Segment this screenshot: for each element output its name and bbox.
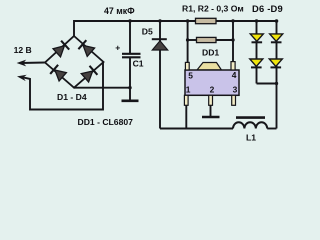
diode D2 (top-right) — [78, 40, 94, 56]
junction top rail / LED column A — [255, 19, 258, 22]
svg-text:L1: L1 — [246, 132, 256, 142]
wire LED column A — [256, 21, 258, 84]
wire LED join bar — [257, 83, 277, 85]
inductor L1 coil — [233, 122, 267, 128]
IC pin 1 — [184, 95, 188, 105]
junction R2 right — [231, 38, 234, 41]
diode D4 (bottom-right) — [81, 66, 97, 82]
svg-text:5: 5 — [188, 71, 193, 81]
svg-text:D1 - D4: D1 - D4 — [57, 92, 87, 102]
wire SW bottom rail — [160, 128, 233, 130]
IC DD1 tab — [197, 63, 222, 71]
wire top rail — [74, 21, 277, 36]
svg-text:D6 -D9: D6 -D9 — [252, 3, 283, 14]
IC pin 4 — [231, 62, 235, 70]
svg-text:1: 1 — [186, 85, 191, 95]
svg-text:D5: D5 — [142, 27, 153, 37]
junction top rail / LED column B — [275, 19, 279, 23]
junction D5 top — [158, 19, 161, 22]
IC DD1 body — [185, 70, 239, 95]
resistor R2 wires — [187, 21, 189, 62]
LED D7 — [270, 34, 283, 42]
svg-text:2: 2 — [210, 85, 215, 95]
svg-text:DD1 - CL6807: DD1 - CL6807 — [78, 117, 134, 127]
svg-text:C1: C1 — [133, 59, 144, 69]
arrow input terminal 2 — [17, 75, 27, 81]
arrow input terminal 1 — [17, 60, 27, 67]
junction R node right top — [231, 19, 234, 22]
svg-text:3: 3 — [233, 85, 238, 95]
wire L1 to LED column — [267, 128, 276, 130]
svg-text:+: + — [115, 42, 120, 52]
LED D8 — [250, 59, 263, 67]
wire AC input top — [21, 62, 45, 65]
capacitor C1 wires — [129, 21, 131, 53]
svg-text:12 В: 12 В — [14, 45, 32, 55]
IC pin 2 — [209, 95, 213, 105]
wire pin1 to SW rail — [185, 105, 187, 129]
LED D6 — [250, 34, 263, 42]
wire AC input bottom loop to bridge right vertex — [23, 62, 103, 110]
svg-text:4: 4 — [232, 70, 237, 80]
diode D1 (top-left) — [53, 41, 69, 57]
diode D5 wire — [159, 21, 161, 129]
svg-text:R1, R2 - 0,3 Ом: R1, R2 - 0,3 Ом — [182, 3, 244, 13]
svg-text:47 мкФ: 47 мкФ — [104, 6, 135, 16]
junction LED join / column B — [275, 82, 278, 85]
capacitor C1 plates — [122, 53, 141, 55]
diode D3 (bottom-left) — [50, 65, 66, 81]
inductor L1 core bar — [236, 116, 265, 119]
LED D9 — [269, 59, 282, 67]
diode D5 — [152, 41, 167, 50]
IC pin 3 — [232, 95, 236, 105]
junction R2 left — [186, 38, 189, 41]
junction C1 top — [128, 19, 131, 22]
junction DC minus rail / C1 bottom — [128, 86, 131, 89]
IC pin 5 — [185, 62, 189, 70]
resistor R2 — [197, 37, 217, 42]
ground below pin 2 — [210, 105, 212, 116]
wire DC minus rail — [74, 87, 130, 89]
junction R node left top — [186, 19, 189, 22]
resistor R1 — [196, 18, 217, 23]
svg-text:DD1: DD1 — [202, 47, 219, 57]
bridge rectifier diamond D1-D4 — [45, 36, 104, 88]
wire LED column B — [276, 21, 278, 129]
ground below C1 — [129, 88, 131, 100]
